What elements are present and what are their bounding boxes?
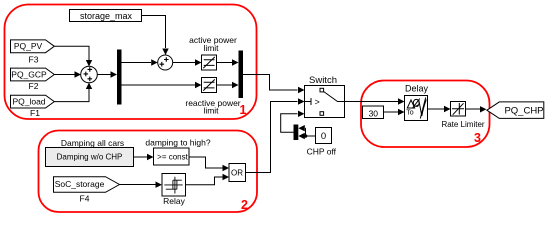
svg-text:To: To — [406, 110, 414, 117]
subsystem boundary 1 — [5, 5, 257, 120]
mux CHP off — [294, 125, 299, 141]
svg-text:PQ_GCP: PQ_GCP — [11, 69, 47, 79]
wire damping to compare — [134, 154, 154, 160]
svg-text:Damping all cars: Damping all cars — [61, 138, 124, 148]
wire SoC_storage to relay — [120, 182, 163, 188]
svg-text:>: > — [315, 97, 320, 107]
wire PQ_PV to sum U1 — [54, 46, 92, 66]
svg-text:F4: F4 — [80, 193, 90, 203]
input tag PQ_GCP (F2) — [11, 68, 55, 91]
svg-text:CHP off: CHP off — [307, 147, 337, 157]
svg-text:SoC_storage: SoC_storage — [55, 179, 105, 189]
wire constant 0 to mux (branch) — [298, 125, 315, 139]
constant 30 — [363, 106, 384, 119]
switch — [305, 75, 345, 118]
demux — [117, 50, 122, 105]
wire storage_max to sum U2 — [142, 16, 169, 56]
input tag PQ_load (F1) — [11, 95, 55, 118]
mux — [239, 51, 244, 99]
wire delay to rate limiter — [428, 106, 451, 112]
subsystem boundary 2 — [39, 131, 258, 213]
svg-text:3: 3 — [474, 131, 481, 145]
output tag PQ_CHP — [487, 102, 544, 119]
wire sum U1 to demux — [97, 71, 117, 77]
svg-text:damping to high?: damping to high? — [145, 138, 210, 148]
svg-text:storage_max: storage_max — [80, 11, 133, 21]
saturation active power limit — [189, 35, 237, 70]
svg-text:F3: F3 — [29, 55, 39, 65]
wire demux Q to reactive saturation — [122, 82, 202, 88]
wire demux P to sum U2 — [122, 59, 158, 65]
svg-text:PQ_CHP: PQ_CHP — [504, 106, 543, 117]
relay — [162, 174, 186, 207]
rate limiter U4 — [441, 102, 484, 129]
wire constant 30 to delay — [384, 109, 405, 115]
svg-text:limit: limit — [203, 43, 219, 53]
saturation reactive power limit — [185, 78, 240, 116]
wire rate limiter to PQ_CHP — [466, 106, 487, 112]
svg-text:Switch: Switch — [309, 75, 337, 86]
wire OR to switch control input — [246, 98, 305, 172]
variable time delay U3 — [405, 84, 429, 121]
input tag SoC_storage (F4) — [54, 177, 120, 204]
svg-text:Relay: Relay — [163, 196, 185, 206]
svg-text:Damping w/o CHP: Damping w/o CHP — [57, 152, 123, 161]
svg-text:F1: F1 — [30, 108, 40, 118]
wire sum U2 to active saturation — [173, 59, 202, 65]
wire compare to OR — [189, 157, 229, 171]
wire PQ_load to sum U1 — [54, 83, 92, 102]
svg-text:30: 30 — [369, 108, 379, 118]
wire switch to delay — [345, 98, 405, 104]
svg-text:PQ_PV: PQ_PV — [14, 41, 43, 51]
svg-text:PQ_load: PQ_load — [12, 96, 45, 106]
wire PQ_GCP to sum U1 — [54, 71, 81, 77]
svg-text:OR: OR — [231, 169, 243, 178]
wire relay to OR — [186, 174, 230, 185]
svg-text:0: 0 — [321, 131, 326, 142]
constant 0 — [307, 128, 337, 157]
compare to constant >= const — [154, 148, 190, 165]
sum U1 — [81, 66, 98, 83]
svg-text:Delay: Delay — [405, 84, 429, 94]
input tag PQ_PV (F3) — [11, 40, 55, 65]
svg-text:Rate Limiter: Rate Limiter — [441, 120, 484, 129]
logical operator OR — [229, 164, 246, 182]
svg-text:>= const: >= const — [157, 153, 188, 162]
wire mux to switch input 1 — [243, 75, 305, 94]
wire active saturation to mux — [217, 59, 239, 65]
subsystem boundary 3 — [361, 81, 490, 148]
wire mux to switch input 3 — [281, 111, 305, 133]
wire reactive saturation to mux — [217, 82, 239, 88]
svg-text:F2: F2 — [29, 81, 39, 91]
constant storage_max — [70, 10, 142, 22]
block Damping w/o CHP — [46, 148, 134, 167]
svg-text:2: 2 — [241, 198, 248, 212]
sum U2 — [158, 55, 173, 70]
svg-text:limit: limit — [203, 106, 219, 116]
